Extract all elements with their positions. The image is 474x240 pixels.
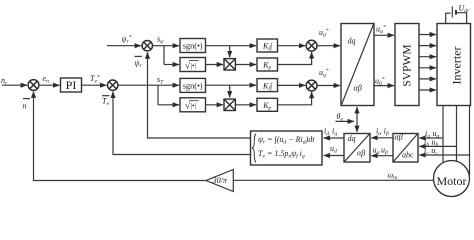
- wire theta_e input arrow: [336, 120, 355, 122]
- wire sqrt2 to mult2: [206, 104, 224, 106]
- wire u_beta* to SVPWM: [374, 85, 394, 87]
- wire Ki1 to S4: [278, 45, 306, 47]
- sqrt block 2: [180, 98, 206, 112]
- wire mult2 to Kp2: [235, 104, 256, 106]
- wire S3 to sgn1 with branch: [153, 46, 180, 65]
- wire alphabeta voltages: [371, 155, 393, 157]
- wire motor speed to gain: [233, 179, 433, 181]
- svg-text:PI: PI: [66, 78, 77, 92]
- svg-text:Ki∫: Ki∫: [262, 81, 273, 91]
- wire Kp2 up to S5: [278, 92, 312, 105]
- multiplier M2: [224, 99, 235, 110]
- wire psi_r* input: [107, 45, 141, 47]
- sgn block 2: [180, 78, 206, 92]
- dq/alphabeta transform block (main): [341, 24, 374, 106]
- battery short plate: [455, 10, 457, 15]
- DC link wire right: [457, 13, 467, 24]
- sgn block 1: [180, 39, 206, 53]
- Kp block 2: [257, 98, 278, 111]
- node n bar feedback label: [23, 99, 31, 111]
- wire Ki2 to S5: [278, 84, 306, 86]
- wire S1 to PI: [39, 84, 60, 86]
- wire u_d to estimator: [324, 155, 344, 157]
- summing junction S5 (u_q*): [306, 80, 317, 91]
- summing junction S1 (speed error): [28, 80, 39, 91]
- node psi_r bar feedback label: [135, 56, 143, 69]
- summing junction S2 (torque error): [108, 80, 118, 90]
- svg-text:|•|: |•|: [191, 62, 196, 70]
- multiplier M1: [224, 59, 235, 70]
- wire sgn1 to Ki1 with branch down: [206, 46, 257, 58]
- svg-text:αβ: αβ: [357, 149, 365, 158]
- wire S4 to dq block: [317, 45, 340, 47]
- svg-text:30/π: 30/π: [212, 176, 228, 185]
- wire alphabeta currents: [371, 137, 393, 139]
- wires SVPWM to Inverter (6 gate signals): [419, 35, 436, 91]
- gain block 30/pi: [206, 170, 233, 192]
- svg-text:αβ: αβ: [354, 84, 362, 93]
- wire dq currents to estimator: [324, 137, 344, 139]
- wire torque estimate feedback to S2: [113, 92, 251, 155]
- wire sqrt1 to mult1: [206, 64, 224, 66]
- wire phase b inverter to motor: [456, 106, 458, 162]
- svg-text:Motor: Motor: [437, 174, 467, 188]
- node T_e bar feedback label: [102, 96, 110, 107]
- dq/alphabeta transform block (measurement): [344, 134, 370, 163]
- wire Kp1 up to S4: [278, 52, 312, 64]
- wire phase a inverter to motor: [442, 106, 444, 164]
- wire S2 to sgn2 with branch: [118, 85, 179, 105]
- svg-text:dq: dq: [348, 134, 356, 143]
- Ki integrator block 2: [257, 79, 278, 92]
- wire flux estimate feedback to S3: [148, 52, 251, 138]
- battery long plate: [451, 6, 453, 17]
- svg-text:|•|: |•|: [191, 102, 196, 110]
- flux and torque estimator block: [251, 129, 323, 165]
- svg-text:abc: abc: [402, 151, 414, 160]
- wire speed feedback to S1: [34, 92, 207, 181]
- summing junction S4 (u_d*): [306, 40, 317, 51]
- svg-text:Ki∫: Ki∫: [262, 42, 273, 52]
- wire phase a measurement tap: [419, 137, 443, 139]
- wire theta_e vertical both ways: [356, 107, 358, 132]
- wire n_r input: [2, 84, 27, 86]
- Ki integrator block 1: [257, 39, 278, 52]
- wire PI to S2: [82, 84, 107, 86]
- svg-text:αβ: αβ: [395, 133, 403, 142]
- wire phase b measurement tap: [419, 145, 456, 147]
- svg-text:SVPWM: SVPWM: [401, 44, 413, 86]
- Inverter block: [437, 24, 471, 106]
- wire u_alpha* to SVPWM: [374, 34, 394, 36]
- alphabeta/abc transform block: [393, 133, 418, 163]
- DC link wire left: [446, 13, 451, 24]
- svg-text:Inverter: Inverter: [450, 47, 464, 85]
- wire sgn2 to Ki2 with branch down: [206, 85, 257, 97]
- summing junction S3 (flux error): [142, 41, 152, 51]
- svg-text:Te = 1.5pnψf iq: Te = 1.5pnψf iq: [258, 149, 305, 159]
- svg-text:n: n: [23, 102, 27, 111]
- wire phase c inverter to motor: [469, 106, 471, 176]
- wire mult1 to Kp1: [235, 64, 256, 66]
- PI controller block: [61, 78, 82, 92]
- wire phase c measurement tap: [419, 154, 469, 156]
- SVPWM block: [395, 24, 419, 106]
- svg-text:sgn(•): sgn(•): [183, 81, 203, 90]
- Motor: [434, 161, 470, 197]
- svg-text:dq: dq: [348, 37, 356, 46]
- svg-text:ψr = ∫(ud − Rid)dt: ψr = ∫(ud − Rid)dt: [258, 135, 315, 145]
- svg-text:sgn(•): sgn(•): [183, 42, 203, 51]
- sqrt block 1: [180, 58, 206, 72]
- Kp block 1: [257, 58, 278, 71]
- wire S5 to dq block: [317, 85, 340, 87]
